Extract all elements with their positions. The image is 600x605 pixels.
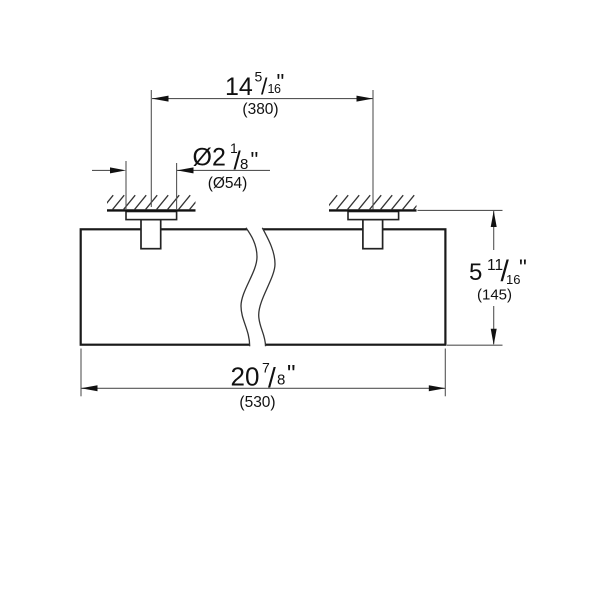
svg-text:(380): (380) xyxy=(242,101,278,118)
svg-text:": " xyxy=(519,255,527,280)
svg-text:Ø2: Ø2 xyxy=(193,144,226,172)
svg-text:/: / xyxy=(268,362,276,393)
svg-text:": " xyxy=(287,361,296,388)
svg-text:5: 5 xyxy=(469,259,482,286)
svg-text:14: 14 xyxy=(225,73,253,101)
svg-text:(530): (530) xyxy=(239,394,275,411)
svg-text:(145): (145) xyxy=(477,287,512,304)
svg-text:20: 20 xyxy=(231,362,260,392)
svg-text:8: 8 xyxy=(240,156,248,173)
svg-text:(Ø54): (Ø54) xyxy=(208,175,248,192)
svg-text:": " xyxy=(277,70,285,95)
svg-text:": " xyxy=(251,148,259,173)
svg-text:8: 8 xyxy=(277,372,285,389)
